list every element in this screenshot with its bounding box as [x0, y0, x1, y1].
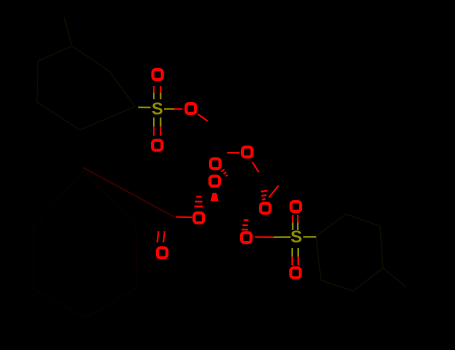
bond C5 to ring O (red half): [227, 152, 240, 154]
hashed wedge to benzoate ester O: [194, 197, 203, 207]
double bond S1=O top, line 1: [153, 86, 155, 93]
ring oxygen O: [242, 147, 252, 157]
bond S1 to ester O (red half): [174, 108, 183, 110]
bond S2 to ring C (olive stub): [303, 236, 316, 238]
oxygen O (below S2): [291, 268, 301, 278]
bond benzoate O to carbonyl C (red half): [176, 216, 192, 218]
bond ring C to S1 (olive stub): [138, 106, 150, 108]
double bond S2=O top, line 1: [292, 215, 294, 223]
oxygen O (top of S1): [153, 70, 163, 80]
oxygen O (below S1): [153, 140, 163, 150]
long bond carbonyl C to phenyl ipso C: [83, 168, 176, 218]
double bond S2=O bottom, line 2: [297, 248, 299, 257]
bond ester O to C6 (red half): [198, 114, 208, 121]
solid wedge from stacked lower O down to C3: [210, 193, 218, 201]
ester oxygen O (right of S1): [186, 104, 196, 114]
methoxy oxygen O: [261, 203, 271, 213]
bond ring O to C1 (red half): [252, 162, 258, 172]
double bond S1=O bottom, line 2: [160, 118, 162, 127]
carbonyl C=O double bond (red halves): [157, 231, 158, 242]
carbonyl oxygen O: [157, 248, 167, 258]
hashed wedge C1 to methoxy O: [261, 191, 268, 200]
bond methoxy O to methyl C (red half): [269, 186, 279, 198]
double bond S1=O top, line 2: [160, 86, 162, 93]
svg-text:S: S: [152, 98, 164, 118]
anhydro oxygen O (stacked lower): [210, 176, 220, 186]
bond tosylate-2 O to S2 (red half): [255, 236, 274, 238]
oxygen O (above S2): [291, 202, 301, 212]
double bond S2=O top, line 2: [297, 215, 299, 223]
hashed wedge ticks from stacked upper O: [221, 169, 228, 176]
benzoate ester oxygen O: [194, 213, 204, 223]
faint tolyl ring of tosyl group 2 (bottom right): [316, 214, 406, 291]
bond tosylate-2 O to S2 (olive half): [274, 236, 291, 238]
tosylate-2 ester oxygen O: [242, 233, 252, 243]
faint phenyl ring of benzoyl group (bottom left): [34, 170, 137, 318]
anhydro oxygen O (stacked upper): [211, 159, 221, 169]
bond S1 to ester O (olive half): [164, 108, 174, 110]
hashed wedge C2 to tosylate-2 O: [242, 220, 249, 229]
faint tolyl ring of tosyl group 1 (top left): [37, 17, 135, 130]
double bond S1=O bottom, line 1: [153, 118, 155, 127]
double bond S2=O bottom, line 1: [291, 248, 293, 257]
